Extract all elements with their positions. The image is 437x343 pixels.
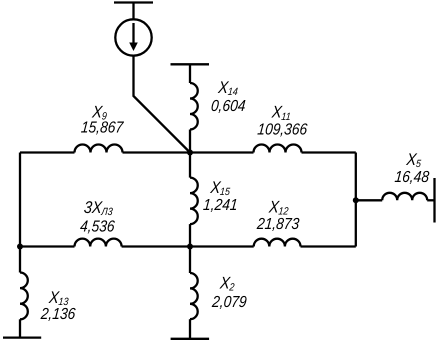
svg-text:X2: X2 <box>218 274 236 293</box>
svg-text:0,604: 0,604 <box>210 97 246 115</box>
svg-text:15,867: 15,867 <box>80 119 124 137</box>
svg-text:4,536: 4,536 <box>79 218 116 236</box>
svg-text:X14: X14 <box>217 79 240 98</box>
svg-text:3XЛ3: 3XЛ3 <box>83 199 114 218</box>
svg-text:2,079: 2,079 <box>210 293 247 311</box>
svg-text:16,48: 16,48 <box>394 168 431 186</box>
svg-text:2,136: 2,136 <box>39 305 77 323</box>
svg-text:1,241: 1,241 <box>202 196 238 214</box>
svg-text:21,873: 21,873 <box>255 215 300 233</box>
svg-text:109,366: 109,366 <box>257 121 309 139</box>
